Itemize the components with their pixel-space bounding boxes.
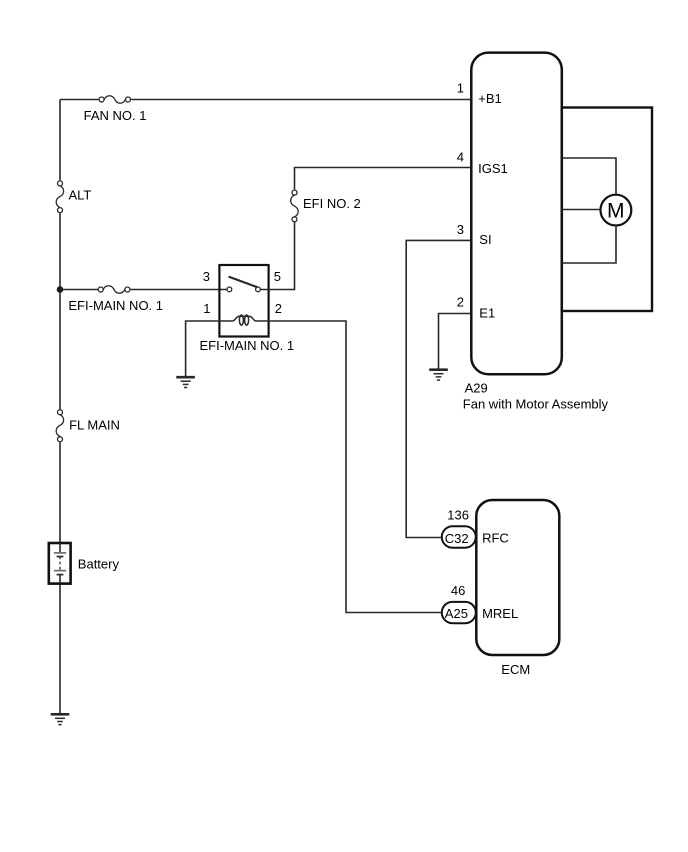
svg-text:ECM: ECM [501,662,530,677]
wire motor bracket top [562,158,616,194]
svg-text:Battery: Battery [78,557,120,572]
wire SI pin 3 to RFC [406,240,471,537]
svg-text:46: 46 [451,583,465,598]
svg-text:EFI NO. 2: EFI NO. 2 [303,196,361,211]
svg-text:FL MAIN: FL MAIN [69,418,120,433]
wire left vertical battery bus [59,100,61,181]
fuse ALT [56,181,63,213]
ground battery [51,714,70,724]
wire relay pin 2 to MREL [269,321,442,613]
battery [49,543,71,584]
svg-text:+B1: +B1 [478,91,502,106]
svg-text:EFI-MAIN NO. 1: EFI-MAIN NO. 1 [68,298,163,313]
svg-text:M: M [607,199,625,222]
connector C32 pin 136 [442,526,476,547]
svg-text:RFC: RFC [482,531,509,546]
ground E1 [429,370,448,380]
wire E1 pin 2 to ground [439,314,472,370]
wire motor middle feed [562,209,600,211]
ECM box [476,500,559,655]
relay EFI-MAIN NO. 1 box [219,265,268,337]
svg-text:1: 1 [203,301,210,316]
fuse EFI NO. 2 [291,190,298,222]
wire motor bracket bottom [562,227,616,263]
svg-text:EFI-MAIN NO. 1: EFI-MAIN NO. 1 [200,338,295,353]
svg-text:A25: A25 [445,606,468,621]
svg-text:FAN NO. 1: FAN NO. 1 [84,108,147,123]
relay switch blade [229,277,258,288]
wire top bus battery to +B1 [60,99,98,101]
svg-text:2: 2 [457,294,464,309]
wire junction to relay pin 3 [60,289,98,291]
relay switch contacts [227,287,260,292]
fuse FAN NO. 1 [99,96,130,103]
svg-text:SI: SI [479,232,491,247]
svg-text:1: 1 [457,80,464,95]
svg-text:E1: E1 [479,305,495,320]
svg-text:4: 4 [457,150,464,165]
connector A25 pin 46 [442,602,476,623]
motor housing rectangle [562,108,652,312]
relay coil [219,316,268,321]
svg-text:5: 5 [274,269,281,284]
fuse EFI-MAIN NO. 1 [98,286,130,293]
svg-text:3: 3 [457,222,464,237]
node junction EFI-MAIN branch [57,286,64,293]
ground relay coil [176,377,195,387]
svg-text:136: 136 [447,507,469,522]
wire EFI NO. 2 fuse to IGS1 pin 4 [295,168,472,190]
svg-text:A29: A29 [465,381,488,396]
svg-text:C32: C32 [445,531,469,546]
fuse FL MAIN [56,410,63,442]
svg-text:Fan with Motor Assembly: Fan with Motor Assembly [463,396,609,411]
wire relay pin 5 to EFI NO. 2 fuse [261,223,295,290]
motor M1 [601,195,632,226]
svg-text:MREL: MREL [482,606,518,621]
wire relay pin 1 to ground [186,321,220,377]
svg-text:IGS1: IGS1 [478,161,508,176]
svg-text:2: 2 [275,301,282,316]
svg-text:3: 3 [203,269,210,284]
svg-text:ALT: ALT [69,188,92,203]
connector A29 Fan with Motor Assembly [471,53,562,375]
